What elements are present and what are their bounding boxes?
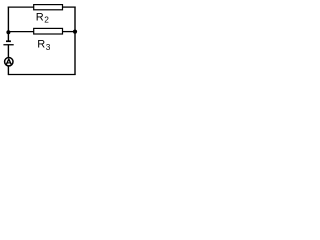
- wire left vertical lower: [7, 66, 9, 75]
- wire bottom horizontal: [8, 74, 75, 76]
- node junction left: [6, 30, 10, 34]
- svg-text:R: R: [36, 11, 44, 23]
- svg-text:2: 2: [44, 15, 49, 25]
- wire left vertical mid: [7, 45, 9, 58]
- battery long plate: [3, 44, 13, 45]
- wire left vertical upper: [7, 7, 9, 42]
- wire top left horizontal: [8, 6, 34, 8]
- wire middle branch right: [63, 31, 76, 33]
- battery short plate: [6, 40, 11, 42]
- ammeter A1 letter: [6, 59, 11, 64]
- resistor R2: [34, 5, 63, 10]
- svg-text:R: R: [37, 38, 45, 50]
- svg-text:3: 3: [46, 42, 51, 52]
- wire middle branch: [8, 31, 33, 33]
- node junction right: [73, 30, 77, 34]
- wire right vertical: [74, 7, 76, 76]
- wire top right horizontal: [63, 6, 76, 8]
- resistor R3: [34, 28, 63, 34]
- ammeter A1 circle: [5, 58, 13, 66]
